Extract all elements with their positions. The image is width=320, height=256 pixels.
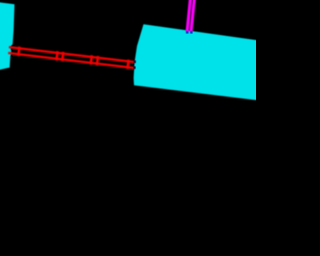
rail bottom (8, 52, 135, 69)
path end cap A (navy) (186, 31, 189, 33)
path end cap B (navy) (190, 31, 193, 33)
rail end tips (dark, on cyan edge right) (134, 60, 136, 63)
path line A (magenta, left) (186, 0, 192, 32)
building strip (top-left cyan) (0, 2, 15, 70)
path line B (magenta, right) (189, 0, 195, 32)
tie 4 (89, 55, 93, 65)
rail top (9, 46, 136, 63)
tie 3 (61, 52, 65, 62)
tie 6 (126, 59, 130, 69)
tie 5 (96, 56, 100, 66)
tie 1 (17, 46, 21, 56)
building block (large cyan quad, top-right) (134, 24, 258, 100)
railway track (red ladder) (8, 45, 136, 69)
tie 2 (55, 51, 59, 61)
